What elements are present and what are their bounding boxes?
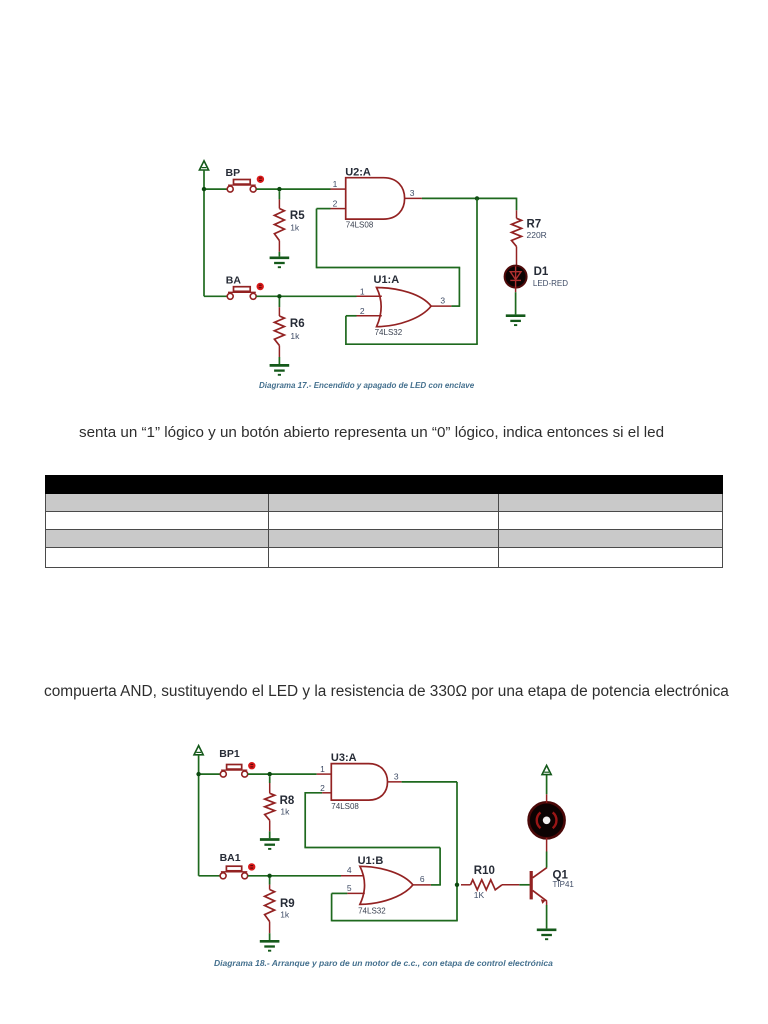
- table row 2 (white): [45, 512, 723, 530]
- wire feedback horizontal: [304, 847, 440, 849]
- svg-text:D1: D1: [534, 266, 549, 278]
- wire BP to U2:A pin1: [256, 188, 330, 190]
- motor M1 body: [529, 802, 565, 838]
- table column divider 2: [498, 494, 499, 569]
- resistor R6 lead top: [278, 307, 280, 316]
- U1:B pin 4 stub: [341, 875, 364, 877]
- D1 cathode lead: [515, 287, 517, 292]
- transistor Q1 TIP41: [531, 868, 547, 905]
- resistor R9 lead top: [269, 885, 271, 890]
- junction output node / R10: [455, 883, 459, 887]
- wire into U2:A pin2 stub: [317, 208, 331, 210]
- svg-text:6: 6: [420, 874, 425, 884]
- junction output node: [475, 196, 479, 200]
- svg-text:U3:A: U3:A: [331, 752, 357, 764]
- wire feedback top horizontal: [317, 267, 461, 269]
- svg-text:R7: R7: [527, 218, 542, 230]
- wire motor to Q1 collector: [546, 852, 548, 868]
- BP1 red dot interactive indicator: [248, 762, 255, 769]
- push button BP1: [220, 765, 247, 778]
- ground under Q1: [537, 930, 557, 939]
- wire left rail to BA: [204, 295, 227, 297]
- resistor R10 lead left: [461, 884, 471, 886]
- svg-text:2: 2: [333, 199, 338, 209]
- wire output node down (feedback to U1:A pin2): [476, 198, 478, 344]
- wire left rail to BA1: [199, 875, 221, 877]
- svg-text:R5: R5: [290, 210, 305, 222]
- resistor R8 lead top: [269, 783, 271, 793]
- BP red dot interactive indicator: [257, 176, 264, 183]
- AND gate U3:A 74LS08: [331, 764, 387, 801]
- svg-text:1K: 1K: [474, 890, 485, 900]
- junction BA node / R6: [277, 294, 281, 298]
- paragraph: senta un 1 logico: [79, 424, 664, 441]
- wire R8 top stub: [269, 776, 271, 783]
- truth table: [45, 475, 723, 569]
- motor M1 bottom lead: [546, 838, 548, 852]
- svg-text:1k: 1k: [280, 807, 290, 817]
- BA1 red dot interactive indicator: [248, 863, 255, 870]
- wire BA to U1:A pin1: [256, 295, 356, 297]
- wire feedback up to pin2 level: [345, 316, 347, 345]
- svg-text:1: 1: [360, 286, 365, 296]
- svg-text:220R: 220R: [527, 230, 547, 240]
- U2:A pin 1 stub: [331, 188, 346, 190]
- junction BA1 node / R9: [267, 874, 271, 878]
- wire BP1 to U3:A pin1: [248, 773, 317, 775]
- svg-text:R10: R10: [474, 865, 495, 877]
- U2:A pin 3 output stub: [405, 197, 422, 199]
- wire motor to power: [546, 775, 548, 795]
- wire feedback bottom horizontal: [346, 343, 478, 345]
- wire feedback down to U1:B output: [439, 848, 441, 885]
- svg-text:3: 3: [440, 296, 445, 306]
- svg-text:2: 2: [320, 783, 325, 793]
- wire feedback left vertical: [304, 792, 306, 848]
- wire left rail circuit1 vertical: [203, 170, 205, 296]
- resistor R7 lead bottom / wire to D1: [516, 247, 518, 267]
- wire R9 top stub: [269, 878, 271, 885]
- svg-text:74LS32: 74LS32: [375, 328, 403, 337]
- wire R8 to ground: [269, 831, 271, 838]
- svg-text:U1:A: U1:A: [374, 274, 400, 286]
- AND gate U2:A 74LS08: [346, 178, 405, 219]
- resistor R9 zigzag: [265, 890, 275, 922]
- svg-text:74LS32: 74LS32: [358, 906, 386, 915]
- wire R6 top stub: [278, 298, 280, 307]
- svg-text:BP: BP: [226, 167, 241, 179]
- resistor R8 lead bottom: [269, 820, 271, 831]
- wire emitter to ground: [546, 905, 548, 928]
- svg-text:1k: 1k: [290, 223, 300, 233]
- svg-text:3: 3: [394, 771, 399, 781]
- ground under D1: [506, 316, 526, 325]
- wire to U1:B output stub: [431, 884, 441, 886]
- resistor R6 lead bottom: [278, 346, 280, 358]
- wire U1:A output to corner: [451, 305, 459, 307]
- resistor R7 lead top: [516, 210, 518, 218]
- resistor R5 lead top: [278, 199, 280, 208]
- wire R6 to ground: [278, 357, 280, 364]
- U1:A pin 3 output stub: [431, 305, 451, 307]
- ground under R9: [260, 941, 280, 950]
- LED D1 body: [505, 266, 527, 288]
- table row 1 (gray): [45, 494, 723, 512]
- junction at left rail / BP row: [202, 187, 206, 191]
- svg-text:1: 1: [333, 179, 338, 189]
- svg-text:BP1: BP1: [219, 748, 240, 760]
- wire U2:A output to R7 branch: [422, 197, 517, 199]
- resistor R6 zigzag: [274, 316, 284, 346]
- svg-text:LED-RED: LED-RED: [533, 279, 568, 288]
- caption Diagrama 18: [214, 958, 552, 968]
- svg-text:4: 4: [347, 865, 352, 875]
- junction left rail / BP1 row: [196, 772, 200, 776]
- wire R5 to ground: [278, 252, 280, 257]
- U1:B pin 5 stub: [347, 892, 364, 894]
- wire to U1:A pin2 stub: [346, 315, 357, 317]
- svg-text:1: 1: [320, 764, 325, 774]
- svg-text:1k: 1k: [280, 909, 290, 919]
- wire R10 to Q1 base: [519, 884, 530, 886]
- resistor R7 zigzag: [512, 218, 522, 246]
- U3:A pin 2 stub: [322, 792, 331, 794]
- OR gate U1:A 74LS32: [377, 288, 432, 327]
- caption Diagrama 17: [259, 381, 470, 390]
- wire R9 to ground: [269, 933, 271, 940]
- table row 4 (white): [45, 548, 723, 568]
- table column divider 1: [268, 494, 269, 569]
- svg-text:BA: BA: [226, 274, 242, 286]
- push button BP: [227, 180, 256, 193]
- motor M1 top lead: [546, 794, 548, 803]
- resistor R10 zigzag: [471, 880, 503, 890]
- U1:B pin 6 output stub: [413, 884, 431, 886]
- power arrow +V above motor: [542, 765, 551, 774]
- U3:A pin 1 stub: [317, 773, 332, 775]
- table row 3 (gray): [45, 530, 723, 549]
- svg-text:R6: R6: [290, 318, 305, 330]
- wire R5 top stub: [278, 191, 280, 199]
- LED D1 diode symbol: [510, 266, 521, 287]
- ground under R8: [260, 840, 280, 849]
- power arrow +V circuit1 left: [199, 161, 208, 170]
- svg-text:74LS08: 74LS08: [346, 221, 374, 230]
- resistor R5 zigzag: [274, 209, 284, 241]
- svg-text:R8: R8: [280, 795, 295, 807]
- junction BP1 node / R8: [268, 772, 272, 776]
- svg-text:5: 5: [347, 883, 352, 893]
- wire down to R7: [516, 198, 518, 211]
- wire U3:A output right: [402, 781, 457, 783]
- svg-text:2: 2: [360, 306, 365, 316]
- U2:A pin 2 stub: [331, 208, 346, 210]
- resistor R9 lead bottom: [269, 922, 271, 934]
- wire output node down to feedback: [456, 782, 458, 921]
- push button BA1: [220, 866, 248, 879]
- U1:A pin 2 stub: [357, 315, 382, 317]
- ground under R5: [270, 258, 290, 267]
- svg-text:R9: R9: [280, 898, 295, 910]
- U3:A pin 3 output stub: [388, 781, 402, 783]
- resistor R8 zigzag: [265, 793, 275, 820]
- svg-text:BA1: BA1: [220, 852, 241, 864]
- wire up to U1:B pin5 level: [331, 893, 333, 921]
- junction BP node / R5: [277, 187, 281, 191]
- svg-text:1k: 1k: [290, 331, 300, 341]
- svg-text:U1:B: U1:B: [358, 855, 384, 867]
- resistor R5 lead bottom: [278, 241, 280, 252]
- wire to BP1 left terminal: [199, 773, 221, 775]
- wire left rail circuit2 vertical: [198, 755, 200, 876]
- wire BA1 to U1:B pin4: [248, 875, 341, 877]
- wire to U1:B pin5 stub: [332, 892, 348, 894]
- paragraph: compuerta AND: [44, 683, 729, 701]
- wire to U3:A pin2: [305, 792, 322, 794]
- BA red dot interactive indicator: [257, 283, 264, 290]
- table header row (black): [45, 475, 723, 494]
- OR gate U1:B 74LS32: [360, 866, 413, 904]
- U1:A pin 1 stub: [357, 295, 382, 297]
- wire feedback to U2:A pin2: [316, 209, 318, 269]
- wire D1 to ground: [515, 292, 517, 314]
- svg-text:74LS08: 74LS08: [331, 802, 359, 811]
- svg-text:3: 3: [410, 188, 415, 198]
- ground under R6: [270, 365, 290, 374]
- power arrow +V circuit2 left: [194, 746, 203, 755]
- motor M1 inner symbol: [537, 812, 557, 828]
- wire to BP left terminal: [204, 188, 227, 190]
- wire feedback up right side: [458, 268, 460, 307]
- resistor R10 lead right: [502, 884, 519, 886]
- svg-text:U2:A: U2:A: [345, 166, 371, 178]
- wire bottom feedback horizontal: [332, 920, 458, 922]
- push button BA: [227, 287, 256, 300]
- svg-text:TIP41: TIP41: [553, 880, 575, 889]
